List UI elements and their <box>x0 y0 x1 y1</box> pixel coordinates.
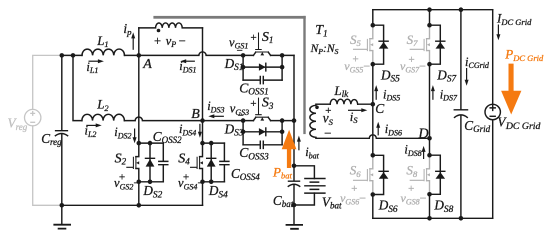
wire secondary top row <box>316 103 330 105</box>
wire input column 2 <box>73 55 82 120</box>
wire CGrid leg lower <box>460 116 462 218</box>
diode DS7 branch <box>430 25 445 64</box>
switch S4 arrow <box>200 161 203 164</box>
wire row A left <box>61 54 82 56</box>
arrow iS <box>348 109 363 111</box>
svg-text:+: + <box>352 53 359 65</box>
battery Vbat plates <box>305 179 325 194</box>
S3 box left vertical <box>242 121 244 145</box>
arrow iDS8 <box>423 151 425 159</box>
power arrow Pbat (orange) <box>282 130 297 168</box>
ground (battery) <box>293 205 295 224</box>
switch S2 MOSFET <box>136 143 139 182</box>
diode DS8 branch <box>430 155 445 194</box>
diode DS2 symbol <box>146 143 155 182</box>
wire leg A vertical (primary left to S2) <box>138 28 140 143</box>
arrow iDS1 <box>185 60 195 62</box>
svg-text:D: D <box>417 126 429 142</box>
arrow iDS4 <box>199 124 201 134</box>
svg-text:C: C <box>375 101 385 116</box>
wire top rail secondary <box>373 9 493 11</box>
node D dot <box>427 136 432 141</box>
wire leg B vertical (primary right to S4) <box>202 28 204 143</box>
junction input-node dots <box>60 53 65 58</box>
capacitor COSS4 <box>220 143 229 182</box>
svg-text:+: + <box>407 183 414 195</box>
svg-text:−: − <box>236 45 243 57</box>
primary winding polarity dot <box>157 29 161 33</box>
capacitor COSS3 plates <box>260 141 263 148</box>
wire D leg mid <box>429 64 431 155</box>
svg-text:+: + <box>351 183 358 195</box>
diode DS1 row <box>243 66 282 68</box>
junction S1 snubber box dots <box>241 53 246 58</box>
arrow ibat <box>298 140 300 150</box>
ground (primary) <box>61 205 63 223</box>
svg-text:+ vP−: + vP− <box>154 34 186 49</box>
current arrows (thin black) <box>86 25 500 160</box>
switch S2 arrow <box>136 161 139 164</box>
wire Llk to node C <box>358 103 373 105</box>
wire C leg lower <box>372 195 374 219</box>
arrow ip <box>132 38 134 50</box>
wire VDCGrid leg upper <box>492 10 494 105</box>
svg-text:−: − <box>237 110 244 122</box>
junction S3 snubber box dots <box>241 118 246 123</box>
wire S4 leg to bottom rail <box>202 182 204 206</box>
capacitor COSS1 plates <box>260 77 263 84</box>
capacitor CGrid <box>454 110 467 118</box>
wire Creg leg lower <box>61 135 63 206</box>
voltage source VDCGrid <box>485 104 500 119</box>
diode DS3 symbol <box>265 128 267 136</box>
capacitor COSS3 row <box>243 144 282 146</box>
power arrow PDCGrid (orange) <box>501 64 521 115</box>
diode DS5 branch <box>373 25 388 64</box>
svg-text:−: − <box>323 126 332 141</box>
arrow iDS7 <box>432 90 434 100</box>
S4 box top rail <box>203 142 225 144</box>
node A dot <box>137 53 142 58</box>
arrow iL1 <box>89 60 100 62</box>
node B dot <box>200 118 205 123</box>
diode DS1 symbol <box>265 63 267 71</box>
wire secondary bottom row with hop over C leg <box>316 135 430 138</box>
wire row B: L2 to node B, hop over A leg <box>124 117 202 121</box>
transformer T1 core <box>153 16 305 134</box>
capacitor COSS2 <box>159 143 168 182</box>
arrow iDS2 <box>134 129 136 139</box>
junction S2 box dots <box>137 141 142 146</box>
S1 box left vertical <box>242 55 244 80</box>
switch S1 arrow <box>260 52 264 55</box>
wire row A to node A <box>125 54 139 56</box>
junction bottom rail dots (secondary) <box>427 216 432 221</box>
S2 box bottom rail <box>139 181 164 183</box>
wire Cbat to bottom node <box>293 185 295 205</box>
switch S8 MOSFET (gray) <box>427 157 430 194</box>
bus vertical (battery link) <box>293 55 295 165</box>
junction bottom rail dots (primary) <box>60 203 65 208</box>
S4 box bottom rail <box>203 181 225 183</box>
arrow iDS3 <box>213 115 224 117</box>
diode DS3 row <box>243 131 282 133</box>
battery Vbat branch <box>294 166 314 205</box>
wire CGrid leg upper <box>460 10 462 110</box>
S1 box right vertical <box>281 55 283 80</box>
svg-text:NP:NS: NP:NS <box>310 43 339 56</box>
svg-text:A: A <box>142 57 152 72</box>
transformer secondary winding <box>310 104 316 138</box>
inductor Llk <box>330 99 358 104</box>
diode DS6 branch <box>373 155 388 194</box>
switch S1 MOSFET <box>253 52 270 55</box>
svg-text:B: B <box>191 107 200 122</box>
wire bottom rail secondary <box>373 217 493 219</box>
wire row B: node B to S3 <box>203 120 254 122</box>
secondary winding polarity dot <box>315 106 319 110</box>
arrow iDS5 <box>375 90 377 100</box>
switch S4 MOSFET <box>200 143 203 182</box>
switch S6 MOSFET (gray) <box>370 157 373 194</box>
wire D leg lower <box>429 194 431 218</box>
junction S4 box dots <box>200 141 205 146</box>
inductor L1 <box>82 49 124 55</box>
wire C leg mid (S5 to C to S6) <box>372 64 374 155</box>
S2 box top rail <box>139 142 164 144</box>
junction battery node dots <box>292 164 297 169</box>
svg-text:+: + <box>408 54 415 66</box>
junction top rail dots (secondary) <box>427 7 432 12</box>
arrow iDS6 <box>377 127 379 135</box>
wire battery bus to Cbat <box>293 166 295 181</box>
wire row B: S3 to bus <box>271 120 294 122</box>
wire bottom rail primary side <box>61 204 203 206</box>
capacitor Creg <box>55 131 67 136</box>
switch S5 MOSFET (gray) <box>370 27 373 64</box>
wire row A: S1 to bus corner <box>271 54 294 56</box>
voltage source Vreg (gray) <box>25 55 61 205</box>
junction S6/S8 branch dots <box>371 153 376 158</box>
junction S5/S7 branch dots <box>371 23 376 28</box>
svg-text:+: + <box>250 98 257 110</box>
wire input column 1 (Creg leg upper) <box>61 55 63 130</box>
arrow iL2 <box>86 124 97 126</box>
switch S3 MOSFET <box>253 117 270 120</box>
S3 box right vertical <box>281 121 283 145</box>
wire row A: node A to S1, hop over primary right leg <box>139 52 254 56</box>
arrow iCGrid <box>466 68 468 81</box>
wire C leg upper <box>372 10 374 26</box>
svg-text:+: + <box>250 32 257 44</box>
node C dot <box>371 102 376 107</box>
wire VDCGrid leg lower <box>492 120 494 219</box>
capacitor COSS1 row <box>243 79 282 81</box>
transformer primary winding <box>139 23 203 28</box>
arrow IDCGrid <box>497 25 499 36</box>
wire D leg upper <box>429 10 431 26</box>
diode DS4 symbol <box>207 143 216 182</box>
gray switches group <box>354 27 430 194</box>
wire S2 leg to bottom rail <box>138 182 140 206</box>
switch S7 MOSFET (gray) <box>427 27 430 64</box>
switch S3 arrow <box>260 117 264 120</box>
inductor L2 <box>82 114 124 120</box>
capacitor Cbat <box>288 181 299 186</box>
